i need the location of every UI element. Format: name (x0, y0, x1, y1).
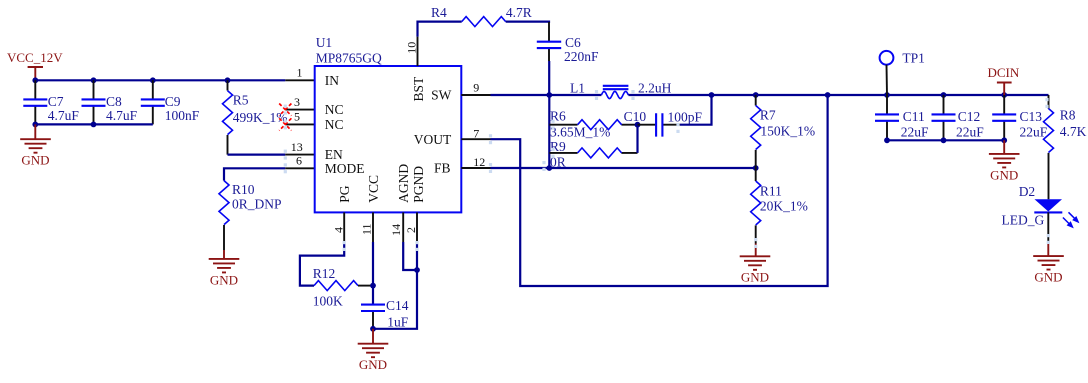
svg-text:C8: C8 (106, 94, 122, 109)
wire PGND down to C14 bottom (373, 242, 417, 329)
svg-text:GND: GND (210, 272, 238, 287)
svg-text:GND: GND (990, 167, 1018, 182)
junction TP1/C11 (884, 92, 890, 98)
wire AGND to PGND column (403, 242, 417, 270)
wire MODE pin 6 to R10 (224, 168, 285, 180)
capacitor C8 (82, 80, 138, 124)
junction C8 top (91, 77, 97, 83)
wire output caps bottom rail (887, 139, 1004, 141)
wire BST up and over to R4 (418, 22, 462, 37)
svg-text:R5: R5 (233, 93, 249, 108)
svg-text:150K_1%: 150K_1% (760, 123, 815, 138)
svg-text:0R_DNP: 0R_DNP (232, 197, 282, 212)
wire GND stem under R10 (223, 250, 225, 259)
pin stub U1 pin 14 AGND (402, 212, 404, 242)
junction SW/C6 node (546, 92, 552, 98)
junction C9 top (150, 77, 156, 83)
svg-text:20K_1%: 20K_1% (760, 199, 808, 214)
wire SW rail to L1 (491, 94, 602, 96)
LED D2 (1019, 184, 1078, 227)
resistor R10 (219, 181, 282, 250)
junction C14 bottom / PGND return (370, 326, 376, 332)
capacitor C7 (23, 80, 79, 124)
svg-text:C13: C13 (1020, 109, 1043, 124)
wire D2 cathode down (1047, 212, 1049, 242)
LED arrows (1063, 212, 1078, 227)
junction R12/VCC/C14 (370, 283, 376, 289)
wire R8 to D2 (1048, 153, 1050, 199)
svg-text:2.2uH: 2.2uH (638, 81, 672, 96)
svg-text:22uF: 22uF (956, 125, 984, 140)
svg-text:D2: D2 (1019, 184, 1035, 199)
wire R9 right up to C10 node (636, 125, 638, 153)
junction C12 top (941, 92, 947, 98)
capacitor C11 (875, 95, 929, 140)
junction R7 top (753, 92, 759, 98)
svg-text:22uF: 22uF (901, 125, 929, 140)
svg-text:NC: NC (325, 117, 344, 132)
pin stub U1 pin 4 PG (343, 212, 345, 242)
wire GND stem under R11 (755, 244, 757, 257)
junction VOUT loop top (825, 92, 831, 98)
svg-text:3: 3 (294, 95, 300, 109)
resistor R7 (751, 95, 815, 168)
wire GND stem under C7 (34, 124, 36, 139)
junction C10 branch top (709, 92, 715, 98)
pin stub U1 pin 9 SW (461, 94, 490, 96)
capacitor C14 (361, 298, 409, 330)
junction C10 node (635, 122, 641, 128)
svg-text:R9: R9 (550, 139, 566, 154)
svg-text:AGND: AGND (396, 164, 411, 203)
wire VCC pin down to C14 (372, 242, 374, 304)
svg-text:499K_1%: 499K_1% (233, 110, 288, 125)
svg-text:100K: 100K (313, 294, 343, 309)
svg-text:VOUT: VOUT (414, 132, 452, 147)
wire C10 right up to output rail (680, 95, 712, 125)
svg-text:C10: C10 (624, 109, 647, 124)
pin stub U1 pin 13 EN (285, 154, 314, 156)
wire GND stem under C13 (1003, 140, 1005, 154)
node VCC_12V power symbol (7, 50, 63, 80)
pin stub U1 pin 7 VOUT (461, 138, 490, 140)
wire input caps bottom rail (35, 123, 153, 125)
resistor R5 (223, 80, 288, 154)
resistor R9 (549, 139, 637, 170)
svg-text:11: 11 (360, 223, 374, 235)
wire R5 bottom to EN pin 13 (228, 154, 286, 156)
svg-text:DCIN: DCIN (988, 65, 1020, 80)
ground output (989, 154, 1020, 182)
svg-text:R10: R10 (232, 182, 255, 197)
svg-text:LED_G: LED_G (1002, 212, 1045, 227)
ground C14 (358, 344, 389, 372)
wire GND stem under D2 (1047, 242, 1049, 256)
junction C12 bottom (941, 137, 947, 143)
svg-text:PG: PG (337, 185, 352, 203)
wire SW node down through R6 R9 to FB rail (548, 95, 550, 168)
pin stub U1 pin 2 PGND (416, 212, 418, 242)
svg-text:4.7K: 4.7K (1060, 124, 1087, 139)
off-grid markers (284, 90, 1050, 251)
svg-text:220nF: 220nF (564, 49, 599, 64)
pin stub U1 pin 11 VCC (372, 212, 374, 242)
svg-text:13: 13 (291, 140, 303, 154)
svg-text:R8: R8 (1060, 108, 1076, 123)
junction C7 bottom (32, 122, 38, 128)
wire VOUT loop to output rail (491, 95, 828, 286)
pin stub U1 pin 12 FB (461, 167, 490, 169)
wire input rail VCC to U1 pin 1 (35, 79, 285, 81)
node DCIN power symbol (988, 65, 1020, 95)
svg-text:SW: SW (431, 88, 452, 103)
junction FB/R6R9 column (546, 165, 552, 171)
junction C11 bottom (884, 137, 890, 143)
capacitor C12 (932, 95, 985, 140)
no-connect X pin 5 (279, 118, 291, 130)
junction C13/DCIN (1001, 92, 1007, 98)
svg-text:VCC: VCC (366, 175, 381, 203)
svg-text:NC: NC (325, 102, 344, 117)
svg-text:14: 14 (389, 224, 403, 236)
svg-text:MP8765GQ: MP8765GQ (316, 50, 382, 65)
capacitor C6 (537, 22, 599, 64)
resistor R11 (751, 168, 808, 244)
junction R5 top (225, 77, 231, 83)
inductor L1 (570, 81, 672, 99)
svg-text:C6: C6 (565, 35, 581, 50)
resistor R8 (1044, 95, 1087, 153)
svg-text:L1: L1 (570, 81, 585, 96)
svg-text:MODE: MODE (325, 161, 365, 176)
svg-text:5: 5 (294, 110, 300, 124)
no-connect X pin 3 (279, 104, 291, 116)
op-amp U1 MP8765GQ regulator body (315, 35, 462, 212)
svg-text:2: 2 (404, 227, 418, 233)
wire R4 to C6 (506, 22, 549, 23)
ground R11 (740, 256, 771, 284)
svg-text:100nF: 100nF (165, 108, 200, 123)
svg-text:1: 1 (297, 66, 303, 80)
svg-text:3.65M_1%: 3.65M_1% (550, 125, 610, 140)
svg-text:C9: C9 (165, 94, 181, 109)
svg-text:4.7uF: 4.7uF (106, 108, 138, 123)
svg-text:R11: R11 (760, 184, 782, 199)
junction AGND/PGND (414, 267, 420, 273)
svg-text:U1: U1 (316, 35, 333, 50)
svg-text:10: 10 (404, 42, 418, 54)
svg-text:100pF: 100pF (668, 109, 703, 124)
wire L1 to output rail (628, 94, 1048, 96)
svg-text:9: 9 (473, 80, 479, 94)
pin stub U1 pin 1 IN (285, 79, 314, 81)
svg-text:FB: FB (434, 161, 451, 176)
svg-text:6: 6 (296, 154, 302, 168)
svg-text:C11: C11 (903, 109, 925, 124)
ground input (20, 139, 51, 167)
svg-text:4.7uF: 4.7uF (48, 108, 80, 123)
svg-text:R12: R12 (313, 266, 336, 281)
svg-text:R7: R7 (760, 107, 776, 122)
svg-text:GND: GND (741, 270, 769, 285)
svg-text:PGND: PGND (411, 166, 426, 203)
svg-text:GND: GND (1034, 270, 1062, 285)
svg-text:GND: GND (21, 153, 49, 168)
ground D2 (1033, 256, 1064, 284)
wire C6 bottom to SW rail (548, 61, 550, 95)
pin stub U1 pin 5 NC (285, 123, 314, 125)
svg-text:C14: C14 (386, 298, 409, 313)
svg-text:GND: GND (359, 357, 387, 372)
pin stub U1 pin 3 NC (285, 109, 314, 111)
resistor R4 (431, 5, 532, 27)
svg-text:1uF: 1uF (387, 315, 409, 330)
svg-text:IN: IN (325, 73, 339, 88)
resistor R12 (313, 266, 373, 309)
svg-text:TP1: TP1 (902, 51, 925, 66)
wire GND stem under C14 (372, 329, 374, 344)
ground R10 (209, 259, 240, 287)
junction VCC/C7 (32, 77, 38, 83)
junction C13 bottom / GND (1001, 137, 1007, 143)
pin stub U1 pin 10 BST (417, 37, 419, 66)
capacitor C10 (624, 109, 703, 137)
junction C8 bottom (91, 122, 97, 128)
svg-text:4.7R: 4.7R (506, 5, 532, 20)
capacitor C13 (992, 95, 1048, 140)
svg-text:BST: BST (411, 76, 426, 102)
junction FB/R7/R11 (753, 165, 759, 171)
wire PG down and around to R12 (300, 242, 344, 286)
test point TP1 (880, 51, 925, 96)
capacitor C9 (141, 80, 200, 124)
resistor R6 (549, 108, 637, 139)
svg-text:VCC_12V: VCC_12V (7, 50, 63, 65)
svg-text:R4: R4 (431, 5, 447, 20)
svg-text:C12: C12 (958, 109, 981, 124)
svg-text:C7: C7 (48, 94, 64, 109)
pin stub U1 pin 6 MODE (285, 167, 314, 169)
svg-text:22uF: 22uF (1020, 125, 1048, 140)
wire FB rail (491, 167, 756, 169)
